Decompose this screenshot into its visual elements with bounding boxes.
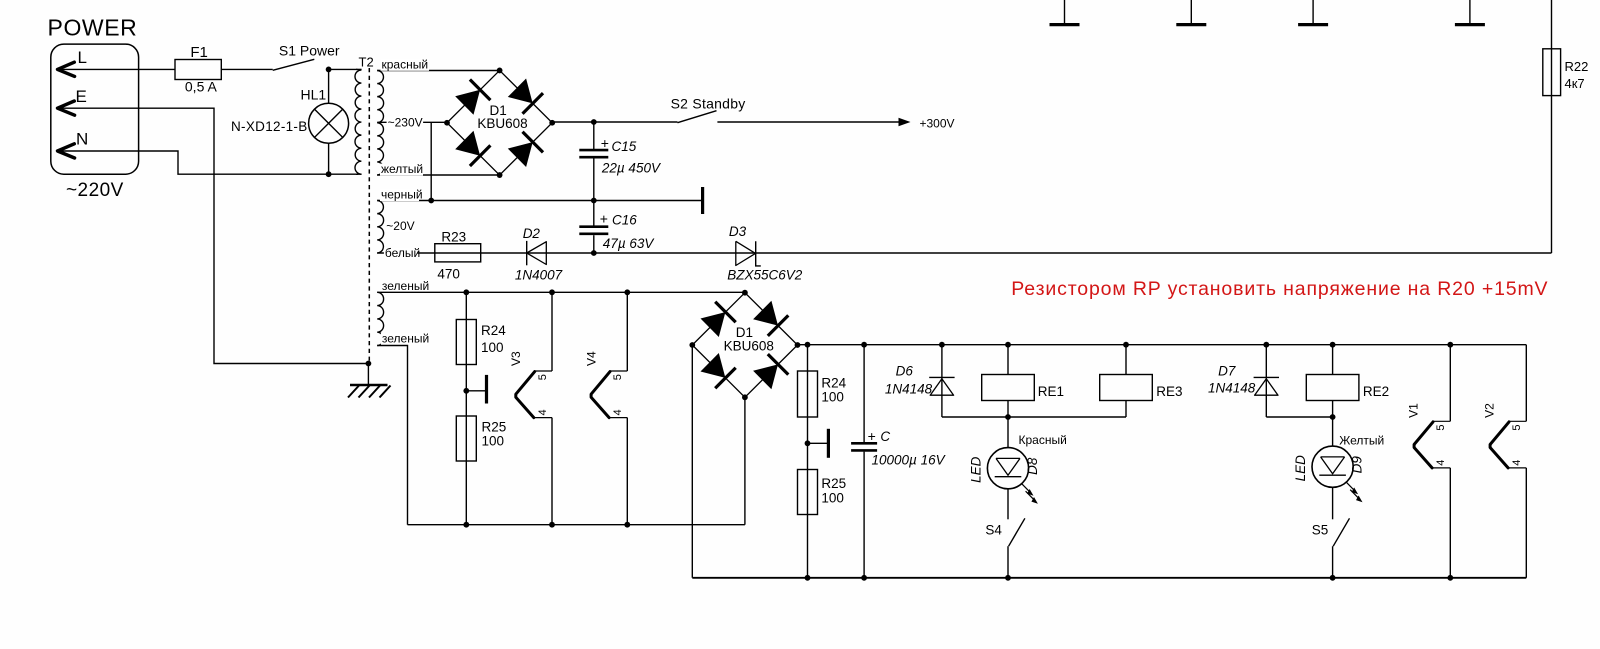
svg-text:47µ 63V: 47µ 63V: [603, 236, 656, 251]
svg-text:1N4007: 1N4007: [515, 268, 563, 283]
svg-text:S5: S5: [1312, 523, 1329, 538]
svg-text:желтый: желтый: [381, 162, 423, 176]
svg-text:100: 100: [481, 340, 504, 355]
svg-text:~230V: ~230V: [388, 115, 423, 129]
svg-text:LED: LED: [1293, 455, 1308, 482]
svg-text:10000µ 16V: 10000µ 16V: [872, 453, 947, 468]
svg-text:C: C: [880, 429, 890, 444]
svg-text:KBU608: KBU608: [724, 338, 774, 353]
svg-text:5: 5: [612, 374, 624, 380]
svg-text:E: E: [76, 87, 87, 106]
svg-text:100: 100: [482, 434, 505, 449]
svg-text:V1: V1: [1406, 403, 1420, 418]
svg-text:+: +: [600, 211, 608, 227]
svg-text:KBU608: KBU608: [477, 116, 527, 131]
svg-text:0,5 A: 0,5 A: [185, 79, 218, 95]
svg-text:R25: R25: [821, 476, 846, 491]
svg-text:+: +: [868, 428, 876, 444]
svg-text:1N4148: 1N4148: [885, 381, 933, 396]
svg-text:L: L: [78, 48, 87, 67]
svg-text:F1: F1: [190, 44, 208, 61]
svg-text:POWER: POWER: [48, 15, 138, 41]
svg-text:LED: LED: [969, 456, 984, 483]
svg-text:5: 5: [1435, 424, 1447, 430]
svg-text:~20V: ~20V: [386, 219, 414, 233]
svg-text:S2 Standby: S2 Standby: [671, 95, 746, 111]
svg-text:R22: R22: [1565, 59, 1589, 74]
svg-text:S4: S4: [985, 523, 1002, 538]
svg-text:R23: R23: [441, 230, 466, 245]
svg-text:зеленый: зеленый: [382, 279, 429, 293]
svg-text:100: 100: [821, 490, 844, 505]
svg-text:T2: T2: [359, 55, 374, 70]
svg-text:D9: D9: [1350, 456, 1365, 474]
svg-text:1N4148: 1N4148: [1208, 381, 1256, 396]
svg-text:V3: V3: [509, 351, 523, 366]
svg-text:4к7: 4к7: [1565, 76, 1585, 91]
svg-text:D7: D7: [1218, 364, 1236, 379]
svg-text:BZX55C6V2: BZX55C6V2: [727, 268, 803, 283]
svg-text:D6: D6: [896, 363, 914, 378]
svg-text:+: +: [601, 135, 609, 151]
svg-text:белый: белый: [385, 246, 420, 260]
svg-text:S1 Power: S1 Power: [279, 43, 340, 59]
svg-text:+300V: +300V: [920, 116, 955, 130]
svg-text:C16: C16: [612, 213, 637, 228]
svg-text:R24: R24: [821, 375, 846, 390]
svg-text:RE3: RE3: [1156, 384, 1182, 399]
svg-text:5: 5: [1511, 424, 1523, 430]
svg-text:R24: R24: [481, 323, 506, 338]
svg-text:100: 100: [821, 390, 844, 405]
svg-text:470: 470: [437, 267, 460, 282]
svg-text:22µ 450V: 22µ 450V: [601, 161, 662, 176]
svg-text:4: 4: [1511, 460, 1523, 466]
svg-text:RE2: RE2: [1363, 384, 1389, 399]
svg-text:4: 4: [612, 409, 624, 415]
svg-text:C15: C15: [612, 139, 637, 154]
svg-text:черный: черный: [381, 188, 423, 202]
svg-text:D8: D8: [1025, 457, 1040, 475]
svg-text:HL1: HL1: [301, 87, 327, 103]
svg-text:4: 4: [537, 409, 549, 415]
svg-text:RE1: RE1: [1038, 384, 1064, 399]
svg-text:красный: красный: [382, 57, 429, 71]
svg-text:V2: V2: [1482, 403, 1496, 418]
svg-text:Желтый: Желтый: [1339, 433, 1384, 447]
svg-text:зеленый: зеленый: [382, 332, 429, 346]
svg-text:4: 4: [1435, 460, 1447, 466]
svg-text:N: N: [76, 130, 88, 149]
svg-text:R25: R25: [482, 420, 507, 435]
svg-text:V4: V4: [584, 351, 598, 366]
svg-text:5: 5: [537, 374, 549, 380]
svg-text:D2: D2: [523, 226, 541, 241]
svg-text:Резистором RP установить напря: Резистором RP установить напряжение на R…: [1011, 278, 1548, 300]
svg-text:~220V: ~220V: [66, 180, 124, 201]
svg-text:Красный: Красный: [1019, 433, 1067, 447]
svg-text:D3: D3: [729, 224, 747, 239]
svg-text:N-XD12-1-B: N-XD12-1-B: [231, 119, 308, 134]
